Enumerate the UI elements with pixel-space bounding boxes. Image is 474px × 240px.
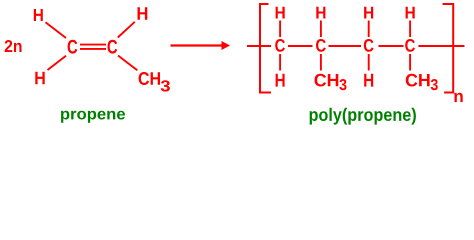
subscript 3 polymer 1 xyxy=(339,79,346,90)
atom H polymer bottom 3 xyxy=(364,74,373,87)
atom C1 propene xyxy=(68,40,78,54)
reaction arrow xyxy=(171,44,223,46)
atom C2 propene xyxy=(108,40,118,54)
right bracket xyxy=(443,4,454,93)
bond C2-C3 chain xyxy=(329,45,362,47)
atom H polymer top 2 xyxy=(316,7,325,19)
group CH3 propene xyxy=(139,72,160,85)
bond C vertical down 4 xyxy=(409,54,411,71)
atom H polymer top 4 xyxy=(406,7,415,19)
atom H propene bottom-left xyxy=(35,72,44,84)
subscript 3 polymer 2 xyxy=(431,79,438,90)
bond H-C vertical top 2 xyxy=(320,21,322,38)
double bond C1=C2 xyxy=(80,44,106,46)
label poly(propene) xyxy=(310,108,416,125)
bond C4 chain out through bracket xyxy=(418,45,464,47)
bond C2 to CH3 propene xyxy=(118,56,137,71)
atom C polymer 4 xyxy=(405,39,415,52)
subscript 3 propene xyxy=(161,80,170,91)
atom C polymer 1 xyxy=(275,39,285,52)
bond C1-C2 chain xyxy=(288,45,313,47)
bond H-C vertical top 4 xyxy=(409,21,411,38)
bond C2 to H upper-right propene xyxy=(118,22,135,38)
atom C polymer 3 xyxy=(364,39,374,52)
atom H polymer top 3 xyxy=(364,7,373,19)
bond C vertical down 1 xyxy=(279,54,281,71)
bond H-C vertical top 1 xyxy=(279,21,281,38)
atom H propene top-left xyxy=(34,9,43,21)
atom H polymer top 1 xyxy=(276,7,285,19)
coefficient 2n xyxy=(5,40,22,52)
chain bond into bracket xyxy=(247,45,271,47)
subscript n xyxy=(454,93,462,102)
bond C vertical down 3 xyxy=(368,54,370,71)
bond C vertical down 2 xyxy=(320,54,322,71)
left bracket xyxy=(260,4,271,93)
atom H propene top-right xyxy=(138,7,148,19)
atom H polymer bottom 1 xyxy=(276,74,285,87)
label propene xyxy=(61,111,125,123)
bond C3-C4 chain xyxy=(379,45,404,47)
bond H to C1 propene xyxy=(46,22,67,38)
bond H to C1 lower propene xyxy=(48,56,67,70)
group CH3 polymer 1 xyxy=(315,74,339,87)
atom C polymer 2 xyxy=(316,39,326,52)
bond H-C vertical top 3 xyxy=(368,21,370,38)
group CH3 polymer 2 xyxy=(406,74,430,87)
